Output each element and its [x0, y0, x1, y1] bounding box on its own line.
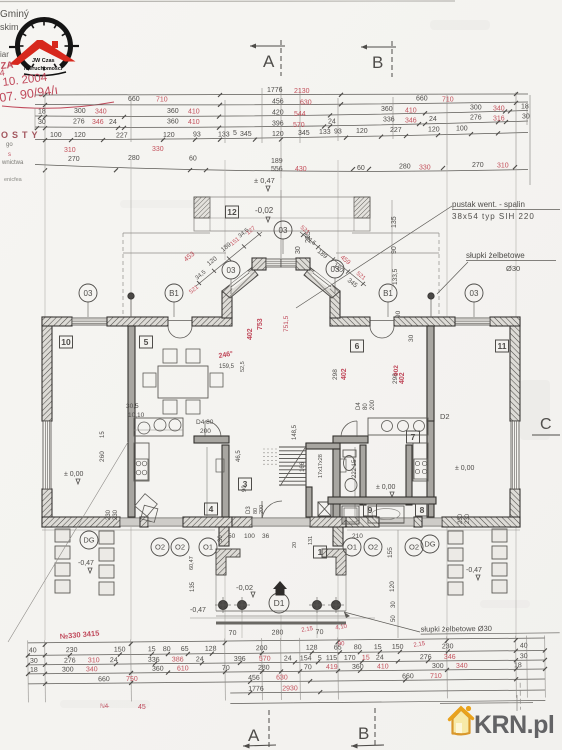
- svg-text:280: 280: [272, 629, 284, 636]
- svg-text:-0,47: -0,47: [78, 560, 94, 567]
- svg-text:276: 276: [420, 654, 432, 661]
- svg-text:310: 310: [88, 657, 100, 664]
- svg-text:155: 155: [387, 547, 394, 558]
- svg-text:1776: 1776: [267, 87, 283, 94]
- svg-text:18: 18: [514, 662, 522, 669]
- svg-text:17x17x28: 17x17x28: [318, 454, 324, 478]
- svg-text:230: 230: [442, 643, 454, 650]
- svg-text:336: 336: [383, 117, 395, 124]
- svg-text:570: 570: [259, 656, 271, 663]
- svg-text:2130: 2130: [294, 88, 310, 95]
- svg-text:456: 456: [248, 675, 260, 682]
- svg-text:50: 50: [391, 615, 397, 622]
- svg-text:18: 18: [30, 667, 38, 674]
- svg-text:65: 65: [181, 646, 189, 653]
- svg-text:276: 276: [73, 119, 85, 126]
- svg-text:12: 12: [227, 207, 237, 217]
- svg-text:710: 710: [156, 97, 168, 104]
- svg-text:386: 386: [172, 656, 184, 663]
- svg-text:360: 360: [352, 664, 364, 671]
- svg-text:-0,47: -0,47: [466, 567, 482, 574]
- svg-text:660: 660: [416, 96, 428, 103]
- svg-text:310: 310: [497, 163, 509, 170]
- svg-text:Ø30: Ø30: [506, 264, 520, 273]
- svg-text:396: 396: [272, 121, 284, 128]
- svg-text:154: 154: [300, 655, 312, 662]
- svg-text:± 0,00: ± 0,00: [376, 484, 396, 491]
- svg-text:D2: D2: [440, 412, 450, 421]
- svg-text:O1: O1: [347, 543, 357, 552]
- svg-text:360: 360: [381, 106, 393, 113]
- svg-text:280: 280: [128, 155, 140, 162]
- svg-text:100: 100: [50, 132, 62, 139]
- svg-text:słupki żelbetowe: słupki żelbetowe: [466, 251, 525, 260]
- svg-text:1: 1: [318, 547, 323, 557]
- svg-text:410: 410: [405, 108, 417, 115]
- svg-text:5: 5: [233, 130, 237, 137]
- svg-text:276: 276: [64, 657, 76, 664]
- svg-text:430: 430: [295, 166, 307, 173]
- svg-text:OSTY: OSTY: [1, 130, 42, 140]
- svg-text:300: 300: [62, 666, 74, 673]
- svg-text:60,47: 60,47: [189, 556, 195, 570]
- svg-text:30: 30: [391, 601, 397, 608]
- svg-text:93: 93: [193, 132, 201, 139]
- svg-text:751,5: 751,5: [283, 315, 290, 332]
- svg-text:7: 7: [411, 432, 416, 442]
- svg-text:300: 300: [470, 105, 482, 112]
- svg-text:8: 8: [420, 505, 425, 515]
- svg-text:O2: O2: [368, 543, 378, 552]
- svg-text:go: go: [6, 142, 13, 148]
- svg-text:270: 270: [68, 156, 80, 163]
- svg-text:100: 100: [456, 126, 468, 133]
- svg-text:30: 30: [218, 535, 224, 542]
- svg-text:s: s: [8, 152, 11, 158]
- svg-text:710: 710: [430, 673, 442, 680]
- svg-text:10: 10: [61, 337, 71, 347]
- svg-text:30: 30: [38, 119, 46, 126]
- svg-text:346: 346: [444, 654, 456, 661]
- svg-text:KRN.pl: KRN.pl: [474, 711, 554, 739]
- svg-text:03: 03: [84, 289, 93, 298]
- svg-text:170: 170: [344, 655, 356, 662]
- svg-text:410: 410: [377, 663, 389, 670]
- svg-text:6: 6: [355, 341, 360, 351]
- svg-text:9: 9: [368, 505, 373, 515]
- svg-text:skim: skim: [0, 22, 19, 32]
- svg-text:DG: DG: [83, 536, 94, 545]
- svg-text:20: 20: [292, 542, 298, 548]
- svg-text:słupki żelbetowe Ø30: słupki żelbetowe Ø30: [421, 624, 492, 634]
- svg-text:345: 345: [298, 130, 310, 137]
- svg-text:276: 276: [470, 115, 482, 122]
- svg-text:115: 115: [326, 655, 337, 662]
- svg-text:753: 753: [257, 318, 264, 330]
- svg-text:630: 630: [300, 100, 312, 107]
- svg-text:38x54 typ SIH 220: 38x54 typ SIH 220: [452, 212, 535, 221]
- svg-text:pustak went. - spalin: pustak went. - spalin: [452, 200, 525, 209]
- svg-text:D4: D4: [356, 402, 362, 410]
- svg-text:wnictwa: wnictwa: [1, 160, 24, 166]
- svg-text:402: 402: [247, 328, 254, 340]
- svg-text:660: 660: [128, 96, 140, 103]
- svg-text:360: 360: [167, 108, 179, 115]
- svg-text:346: 346: [405, 118, 417, 125]
- svg-text:456: 456: [272, 99, 284, 106]
- svg-text:710: 710: [442, 97, 454, 104]
- svg-text:15: 15: [374, 644, 382, 651]
- svg-text:15: 15: [100, 431, 106, 438]
- svg-text:D3: D3: [246, 506, 252, 514]
- svg-text:A: A: [248, 726, 260, 745]
- svg-text:18: 18: [521, 104, 529, 111]
- svg-text:90: 90: [395, 310, 402, 318]
- svg-text:80: 80: [354, 644, 362, 651]
- svg-text:D4 80: D4 80: [196, 419, 214, 426]
- svg-text:340: 340: [95, 109, 107, 116]
- svg-text:30: 30: [520, 653, 528, 660]
- svg-text:4: 4: [209, 504, 214, 514]
- svg-text:50: 50: [228, 533, 236, 540]
- svg-text:1776: 1776: [248, 686, 264, 693]
- svg-text:10,10: 10,10: [128, 412, 145, 419]
- svg-text:70: 70: [304, 664, 312, 671]
- svg-text:227: 227: [390, 127, 402, 134]
- svg-text:159,5: 159,5: [219, 364, 235, 370]
- svg-text:24: 24: [196, 656, 204, 663]
- svg-text:± 0,00: ± 0,00: [64, 471, 84, 478]
- svg-text:133: 133: [218, 132, 230, 139]
- svg-text:120: 120: [389, 581, 396, 592]
- svg-text:340: 340: [493, 106, 505, 113]
- svg-text:135: 135: [190, 581, 196, 592]
- svg-text:120: 120: [272, 131, 284, 138]
- svg-text:52,5: 52,5: [240, 361, 246, 372]
- svg-text:128: 128: [306, 645, 318, 652]
- svg-text:11: 11: [498, 341, 507, 351]
- svg-text:410: 410: [188, 109, 200, 116]
- svg-text:iar: iar: [0, 50, 9, 59]
- svg-text:B1: B1: [383, 289, 393, 298]
- svg-text:660: 660: [98, 676, 110, 683]
- svg-text:5: 5: [144, 337, 149, 347]
- svg-text:A: A: [263, 52, 275, 71]
- svg-text:70: 70: [229, 630, 237, 637]
- svg-text:610: 610: [177, 665, 189, 672]
- svg-text:24: 24: [429, 116, 437, 123]
- svg-text:O2: O2: [175, 543, 185, 552]
- svg-text:227: 227: [116, 133, 128, 140]
- svg-text:60: 60: [357, 165, 365, 172]
- svg-text:60: 60: [189, 156, 197, 163]
- svg-text:120: 120: [428, 127, 440, 134]
- svg-text:30: 30: [295, 246, 302, 254]
- svg-text:360: 360: [167, 119, 179, 126]
- svg-text:30: 30: [522, 114, 530, 121]
- svg-text:300: 300: [432, 663, 444, 670]
- svg-text:166: 166: [300, 461, 306, 472]
- svg-text:230: 230: [66, 647, 78, 654]
- svg-text:36: 36: [262, 533, 270, 540]
- svg-text:18: 18: [38, 109, 46, 116]
- svg-text:± 0,00: ± 0,00: [455, 465, 475, 472]
- svg-text:419: 419: [326, 664, 338, 671]
- svg-text:80: 80: [363, 403, 369, 410]
- svg-text:128: 128: [205, 646, 217, 653]
- svg-text:345: 345: [240, 131, 252, 138]
- svg-text:80: 80: [163, 646, 171, 653]
- svg-text:90: 90: [338, 641, 345, 647]
- svg-text:46,5: 46,5: [236, 450, 242, 462]
- svg-text:200: 200: [259, 505, 265, 514]
- svg-text:150: 150: [392, 644, 404, 651]
- svg-text:230: 230: [458, 513, 464, 524]
- svg-text:DG: DG: [424, 540, 435, 549]
- svg-text:310: 310: [64, 147, 76, 154]
- svg-text:03: 03: [279, 226, 288, 235]
- svg-text:03: 03: [227, 266, 236, 275]
- svg-text:120: 120: [356, 128, 368, 135]
- svg-text:B1: B1: [169, 289, 179, 298]
- svg-text:24: 24: [284, 655, 292, 662]
- svg-text:90: 90: [242, 485, 248, 492]
- svg-text:346: 346: [92, 119, 104, 126]
- svg-text:O2: O2: [155, 543, 165, 552]
- svg-text:280: 280: [399, 164, 411, 171]
- svg-text:410: 410: [188, 119, 200, 126]
- svg-text:230: 230: [106, 509, 112, 520]
- svg-text:± 0,47: ± 0,47: [254, 176, 275, 185]
- svg-text:D1: D1: [274, 598, 285, 608]
- svg-text:B: B: [358, 724, 369, 743]
- svg-text:200: 200: [370, 399, 376, 410]
- svg-text:O1: O1: [203, 543, 213, 552]
- svg-text:316: 316: [493, 116, 505, 123]
- svg-text:200: 200: [200, 428, 211, 435]
- svg-text:210: 210: [352, 533, 363, 540]
- svg-text:750: 750: [126, 676, 138, 683]
- svg-text:150: 150: [114, 646, 126, 653]
- svg-text:30,5: 30,5: [126, 403, 139, 410]
- svg-text:200: 200: [256, 645, 268, 652]
- svg-text:30: 30: [30, 658, 38, 665]
- svg-text:24: 24: [110, 657, 118, 664]
- svg-text:340: 340: [456, 663, 468, 670]
- svg-text:2930: 2930: [282, 685, 298, 692]
- svg-text:280: 280: [258, 665, 270, 672]
- svg-text:330: 330: [419, 165, 431, 172]
- svg-text:-0,02: -0,02: [236, 583, 253, 592]
- svg-text:JW Czas: JW Czas: [32, 58, 55, 64]
- svg-text:-0,02: -0,02: [255, 206, 274, 215]
- svg-text:B: B: [372, 53, 383, 72]
- svg-text:902: 902: [393, 365, 400, 376]
- svg-text:120: 120: [74, 132, 86, 139]
- svg-text:630: 630: [276, 674, 288, 681]
- svg-text:30: 30: [408, 334, 415, 342]
- svg-text:660: 660: [402, 673, 414, 680]
- svg-text:330: 330: [152, 146, 164, 153]
- svg-text:300: 300: [74, 108, 86, 115]
- svg-text:enicfea: enicfea: [4, 177, 23, 183]
- svg-text:40: 40: [29, 647, 37, 654]
- svg-text:131: 131: [308, 536, 314, 545]
- svg-text:15: 15: [148, 646, 156, 653]
- svg-text:570: 570: [293, 122, 305, 129]
- svg-text:260: 260: [99, 451, 106, 462]
- svg-text:402: 402: [341, 368, 348, 380]
- svg-text:270: 270: [472, 162, 484, 169]
- svg-text:24: 24: [376, 655, 384, 662]
- svg-text:133: 133: [319, 129, 331, 136]
- svg-text:O2: O2: [409, 543, 419, 552]
- svg-text:93: 93: [334, 129, 342, 136]
- svg-text:298: 298: [332, 369, 339, 380]
- svg-text:15: 15: [362, 655, 370, 662]
- svg-text:70: 70: [222, 665, 230, 672]
- svg-text:70: 70: [316, 629, 324, 636]
- svg-text:40: 40: [520, 643, 528, 650]
- svg-text:230: 230: [113, 509, 119, 520]
- svg-text:402: 402: [399, 372, 406, 384]
- svg-text:133,5: 133,5: [392, 268, 399, 285]
- svg-text:Gminý: Gminý: [0, 9, 29, 20]
- svg-text:420: 420: [272, 110, 284, 117]
- svg-text:-0,47: -0,47: [190, 607, 206, 614]
- svg-text:24: 24: [109, 119, 117, 126]
- svg-text:100: 100: [244, 533, 255, 540]
- svg-text:5: 5: [318, 655, 322, 662]
- svg-text:24: 24: [328, 119, 336, 126]
- svg-text:544: 544: [294, 111, 306, 118]
- svg-text:222 15: 222 15: [352, 459, 358, 478]
- svg-text:148,5: 148,5: [292, 424, 298, 440]
- svg-text:360: 360: [152, 666, 164, 673]
- svg-text:120: 120: [163, 132, 175, 139]
- svg-text:230: 230: [465, 513, 471, 524]
- svg-text:340: 340: [86, 666, 98, 673]
- svg-text:336: 336: [148, 657, 160, 664]
- svg-text:396: 396: [234, 656, 246, 663]
- svg-text:03: 03: [470, 289, 479, 298]
